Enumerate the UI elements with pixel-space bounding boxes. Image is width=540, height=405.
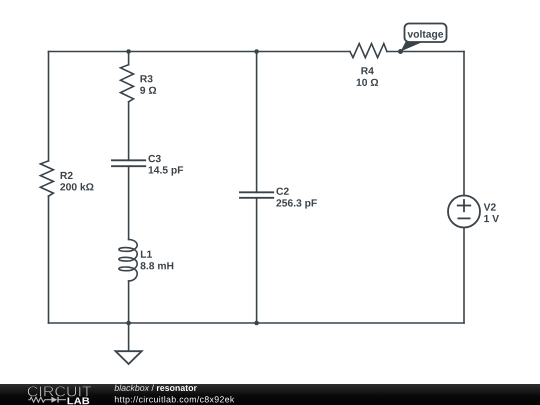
- capacitor C3: [112, 160, 145, 166]
- node junction at ground: [126, 321, 131, 326]
- label C3 value: [148, 155, 183, 176]
- footer url text: [115, 396, 234, 404]
- node junction at C2 bottom: [254, 321, 259, 326]
- wire L1 to bottom rail: [128, 281, 130, 323]
- logo resistor zigzag: [28, 397, 46, 402]
- inductor L1: [119, 239, 137, 281]
- node junction at R3 top: [126, 49, 131, 54]
- label L1 value: [141, 251, 174, 270]
- resistor R4: [350, 44, 387, 58]
- capacitor C2: [240, 192, 273, 198]
- wire top rail right segment: [387, 51, 464, 53]
- label R3 value: [140, 75, 156, 94]
- resistor R2: [40, 161, 53, 196]
- node junction at C2 top: [254, 49, 259, 54]
- label C2 value: [276, 188, 316, 209]
- wire bottom rail: [49, 322, 465, 324]
- label R2 value: [60, 172, 93, 191]
- resistor R3: [121, 65, 134, 102]
- label R4 value: [357, 67, 379, 86]
- logo diode: [51, 397, 57, 403]
- footer bar: [0, 384, 540, 405]
- wire R3 to C3: [128, 102, 130, 161]
- logo CircuitLab wordmark: [28, 386, 92, 404]
- wire left rail lower: [48, 196, 50, 323]
- wire top rail left segment: [49, 51, 350, 53]
- wire branch2 top lead: [128, 52, 130, 65]
- wire ground lead: [128, 323, 130, 351]
- node voltage probe dot: [398, 49, 403, 54]
- node voltage flag: [401, 24, 447, 52]
- wire C2 to bottom rail: [256, 198, 258, 323]
- wire right rail lower: [463, 228, 465, 324]
- wire branch3 top lead: [256, 52, 258, 193]
- logo wire to diode: [46, 399, 51, 401]
- ground: [116, 351, 142, 364]
- wire left rail upper: [48, 52, 50, 161]
- wire C3 to L1: [128, 166, 130, 239]
- logo wire after diode: [58, 399, 66, 401]
- label V2 value: [484, 203, 499, 222]
- footer title text: [114, 385, 196, 391]
- wire right rail upper: [463, 52, 465, 196]
- voltage source V2: [448, 196, 480, 228]
